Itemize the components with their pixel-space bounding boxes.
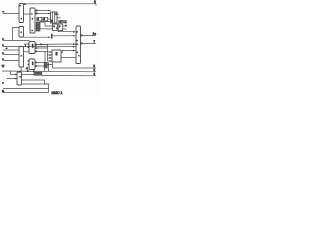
wire J1 to J5 [24, 13, 31, 15]
wire y88 [3, 88, 49, 90]
node 8 stub [24, 3, 26, 5]
connector J2 [19, 27, 24, 38]
svg-text:8: 8 [94, 0, 96, 4]
wire J2 out [24, 36, 51, 38]
label 7b [2, 82, 4, 84]
arrow E out1 [73, 50, 75, 52]
wire D out stub2 [57, 13, 59, 15]
wire RD out [42, 75, 96, 77]
wire top bus [24, 4, 97, 6]
connector D [51, 12, 58, 23]
wire y92 [3, 92, 49, 94]
arrow E in4 [50, 60, 52, 62]
label 8 [94, 0, 96, 4]
wire into J3 b [3, 54, 20, 56]
resistor RC2 [44, 66, 47, 68]
wire G out2 [81, 43, 97, 45]
arrow into J4 b [15, 78, 17, 80]
label b [2, 52, 4, 54]
arrow into D 2 [48, 13, 50, 15]
wire G out1 [81, 35, 97, 37]
wire J5 out1 [35, 10, 51, 12]
wire row2b [3, 46, 20, 48]
node G out1 [81, 35, 83, 37]
svg-text:4: 4 [26, 67, 28, 71]
label pin3 [2, 44, 4, 46]
wire E drop [52, 62, 54, 68]
label pin1 [2, 11, 4, 13]
wire input pin1 [3, 13, 19, 15]
network K1 [53, 24, 63, 31]
label c [2, 58, 4, 60]
connector J1 [19, 4, 24, 23]
wire E out1 [61, 50, 76, 52]
wire route b [22, 84, 49, 93]
wire bus 40 [3, 40, 30, 42]
connector B [28, 42, 37, 54]
wire K1 out1 [63, 25, 67, 27]
wire B in [24, 51, 29, 53]
wire E in3 [48, 57, 53, 59]
wire to K1 in1 [45, 22, 53, 26]
arrow into D 1 [48, 10, 50, 12]
wire collector [47, 45, 49, 62]
label 4 [26, 67, 28, 71]
wire C out1 [35, 62, 49, 64]
arrow E in3 [50, 57, 52, 59]
arrow E in2 [50, 54, 52, 56]
label 6b [93, 72, 95, 76]
resistor RD1 [34, 72, 38, 75]
node G out2 [81, 43, 83, 45]
wire into J4 b [7, 78, 18, 80]
wire E in1 [48, 51, 53, 53]
connector J5 [30, 8, 35, 33]
wire E out2 [61, 57, 76, 59]
wire RN2 out [48, 18, 51, 20]
node out1 [36, 10, 38, 12]
wire bus 44 [36, 43, 76, 45]
resistor RC1 [44, 63, 47, 65]
wire into J3 a [3, 49, 19, 51]
wire R1 out [40, 21, 45, 23]
svg-text:7: 7 [25, 44, 27, 48]
resistor RN1 [37, 17, 42, 21]
arrow E in1 [50, 51, 52, 53]
wire into J3 c [3, 60, 20, 62]
wire B out2 [35, 47, 48, 49]
wire route a [22, 80, 49, 84]
svg-text:MMC 1: MMC 1 [52, 91, 63, 95]
wire E bottom route [45, 52, 53, 65]
resistor RD2 [38, 72, 42, 75]
resistor stack R2 [36, 25, 40, 28]
wire C drop2 [44, 66, 46, 71]
label 1a [93, 32, 97, 36]
wire J3 stub [20, 67, 22, 72]
wire bus 71 [2, 70, 96, 73]
node bus44 b [40, 44, 42, 46]
wire into J2 [13, 28, 20, 41]
node bus71 b [33, 70, 35, 72]
resistor stack R3 [36, 28, 40, 31]
arrow into G 2 [73, 35, 75, 37]
arrow into T1 [48, 36, 50, 38]
node bus44 [35, 44, 37, 46]
label 6a [93, 68, 95, 72]
wire to D bottom [40, 21, 51, 23]
node K1 out1 [65, 25, 67, 27]
node out2 [36, 13, 38, 15]
arrow bus44 [73, 43, 76, 45]
label NTC [59, 20, 68, 24]
label 7a [93, 40, 95, 44]
wire K1 to G [58, 31, 76, 33]
connector J3 [19, 47, 24, 68]
label pin2 [2, 38, 4, 40]
svg-text:1a: 1a [93, 32, 97, 36]
block E [52, 50, 61, 62]
label 7 above J3 [25, 44, 27, 48]
wire K1 out2 [63, 28, 67, 30]
wire B out1 [35, 44, 48, 46]
arrow into J4 a [15, 74, 17, 76]
wire J5 out2 [35, 13, 51, 15]
label a [6, 48, 8, 49]
connector J4 [17, 72, 22, 85]
wire bus 46 [19, 46, 76, 48]
connector G [76, 26, 81, 64]
wire E in4 [48, 60, 53, 62]
wire C drop [48, 63, 50, 72]
wire D out stub [57, 17, 61, 19]
label 5 [93, 64, 95, 68]
arrow into G 1 [73, 31, 76, 33]
resistor stack R1 [36, 22, 40, 25]
element T1 bar [51, 34, 52, 39]
wire J4 out [22, 74, 35, 76]
svg-text:NTC1: NTC1 [59, 20, 68, 24]
arrow bus46 [73, 46, 76, 48]
label w [2, 64, 5, 68]
node bus71 a [27, 70, 29, 72]
wire B out3 [35, 50, 48, 52]
wire y68 [53, 67, 97, 69]
wire R3 out [40, 28, 53, 30]
resistor RN2 [43, 17, 48, 21]
node dot left [2, 90, 5, 93]
wire E in2 [48, 54, 53, 56]
wire into J4 a [11, 72, 18, 75]
wire C out2 [35, 65, 45, 67]
label MMC 1 [52, 91, 63, 95]
wire T1 to G [53, 35, 76, 37]
connector C [28, 59, 37, 70]
